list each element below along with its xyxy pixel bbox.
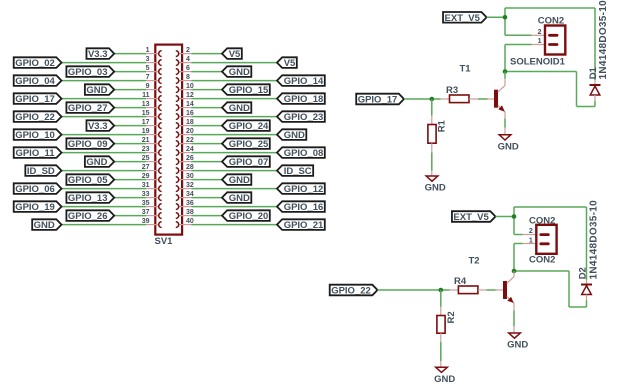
svg-text:1N4148DO35-10: 1N4148DO35-10 bbox=[598, 0, 609, 80]
svg-text:3: 3 bbox=[146, 56, 150, 63]
svg-text:GPIO_21: GPIO_21 bbox=[284, 220, 324, 231]
svg-text:GND: GND bbox=[34, 220, 55, 231]
svg-text:6: 6 bbox=[186, 65, 190, 72]
svg-text:CON2: CON2 bbox=[529, 215, 555, 226]
svg-text:GPIO_22: GPIO_22 bbox=[15, 112, 55, 123]
svg-text:GND: GND bbox=[86, 85, 107, 96]
svg-text:GPIO_16: GPIO_16 bbox=[284, 202, 324, 213]
svg-text:R4: R4 bbox=[454, 276, 467, 287]
svg-text:8: 8 bbox=[186, 74, 190, 81]
svg-text:GND: GND bbox=[229, 67, 250, 78]
svg-text:GPIO_17: GPIO_17 bbox=[15, 94, 55, 105]
svg-text:GPIO_11: GPIO_11 bbox=[15, 148, 55, 159]
svg-text:R1: R1 bbox=[437, 119, 448, 132]
svg-text:GPIO_12: GPIO_12 bbox=[284, 184, 324, 195]
svg-text:GND: GND bbox=[498, 142, 519, 153]
svg-text:GPIO_05: GPIO_05 bbox=[68, 175, 108, 186]
svg-text:1: 1 bbox=[529, 238, 533, 245]
svg-text:4: 4 bbox=[186, 56, 190, 63]
svg-text:GPIO_06: GPIO_06 bbox=[15, 184, 55, 195]
svg-text:GND: GND bbox=[425, 183, 446, 194]
svg-text:GPIO_15: GPIO_15 bbox=[229, 85, 269, 96]
svg-text:7: 7 bbox=[146, 74, 150, 81]
svg-text:V3.3: V3.3 bbox=[88, 121, 108, 132]
svg-text:2: 2 bbox=[538, 29, 542, 36]
svg-text:GPIO_26: GPIO_26 bbox=[68, 211, 108, 222]
svg-text:SOLENOID1: SOLENOID1 bbox=[510, 56, 566, 67]
svg-text:GPIO_10: GPIO_10 bbox=[15, 130, 55, 141]
svg-text:CON2: CON2 bbox=[538, 16, 564, 27]
svg-text:GPIO_09: GPIO_09 bbox=[68, 139, 108, 150]
svg-text:GPIO_23: GPIO_23 bbox=[284, 112, 324, 123]
svg-text:D2: D2 bbox=[577, 267, 588, 279]
svg-text:SV1: SV1 bbox=[155, 236, 174, 247]
svg-text:GPIO_14: GPIO_14 bbox=[284, 76, 324, 87]
svg-text:R3: R3 bbox=[446, 85, 458, 96]
svg-text:GPIO_13: GPIO_13 bbox=[68, 193, 108, 204]
svg-text:T1: T1 bbox=[460, 64, 472, 75]
svg-text:GPIO_17: GPIO_17 bbox=[358, 95, 398, 106]
svg-text:T2: T2 bbox=[469, 256, 480, 267]
svg-text:GPIO_19: GPIO_19 bbox=[15, 202, 55, 213]
svg-text:5: 5 bbox=[146, 65, 150, 72]
svg-text:GPIO_22: GPIO_22 bbox=[331, 286, 371, 297]
svg-text:GND: GND bbox=[229, 193, 250, 204]
svg-text:V5: V5 bbox=[229, 49, 241, 60]
svg-text:2: 2 bbox=[529, 228, 533, 235]
svg-text:EXT_V5: EXT_V5 bbox=[453, 212, 489, 223]
svg-text:GND: GND bbox=[229, 103, 250, 114]
svg-text:1: 1 bbox=[538, 38, 542, 45]
svg-text:ID_SC: ID_SC bbox=[284, 166, 312, 177]
svg-text:GND: GND bbox=[434, 374, 455, 385]
svg-text:GPIO_25: GPIO_25 bbox=[229, 139, 269, 150]
svg-text:GPIO_27: GPIO_27 bbox=[68, 103, 108, 114]
svg-text:ID_SD: ID_SD bbox=[27, 166, 55, 177]
svg-text:1N4148DO35-10: 1N4148DO35-10 bbox=[588, 200, 599, 280]
svg-text:9: 9 bbox=[146, 83, 150, 90]
svg-text:1: 1 bbox=[146, 47, 150, 54]
svg-text:R2: R2 bbox=[446, 311, 457, 323]
svg-text:GPIO_20: GPIO_20 bbox=[229, 211, 269, 222]
svg-text:GPIO_02: GPIO_02 bbox=[15, 58, 55, 69]
svg-text:EXT_V5: EXT_V5 bbox=[445, 13, 481, 24]
svg-text:GPIO_07: GPIO_07 bbox=[229, 157, 269, 168]
svg-text:V3.3: V3.3 bbox=[88, 49, 108, 60]
svg-text:GPIO_03: GPIO_03 bbox=[68, 67, 108, 78]
svg-text:GND: GND bbox=[284, 130, 305, 141]
svg-text:GPIO_18: GPIO_18 bbox=[284, 94, 324, 105]
svg-text:GND: GND bbox=[229, 175, 250, 186]
svg-text:GND: GND bbox=[507, 340, 528, 351]
svg-text:GPIO_24: GPIO_24 bbox=[229, 121, 269, 132]
svg-text:2: 2 bbox=[186, 47, 190, 54]
svg-text:V5: V5 bbox=[284, 58, 296, 69]
svg-text:GPIO_08: GPIO_08 bbox=[284, 148, 324, 159]
svg-text:GND: GND bbox=[86, 157, 107, 168]
svg-text:GPIO_04: GPIO_04 bbox=[15, 76, 55, 87]
svg-text:CON2: CON2 bbox=[529, 255, 555, 266]
